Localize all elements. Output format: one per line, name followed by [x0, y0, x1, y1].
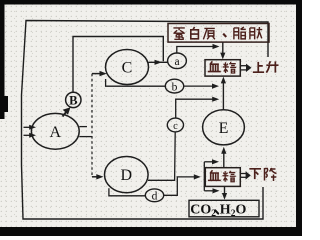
branch bottom arrow [204, 190, 215, 192]
circle B [66, 92, 81, 107]
text rise(sheng) [266, 61, 278, 72]
wire D bottom to d [109, 188, 145, 196]
dashed nerve arrow into C [92, 73, 102, 75]
text up(shang) [253, 62, 264, 72]
dashed nerve stubs from A [79, 126, 87, 128]
wire arrow into A upper [24, 126, 31, 128]
svg-text:B: B [69, 93, 77, 107]
wire C bottom to b [106, 79, 166, 86]
svg-text:b: b [172, 81, 178, 93]
wire from D up through c with arrow [176, 99, 216, 118]
circle b [165, 79, 183, 93]
scan border top [0, 0, 302, 5]
lower blood sugar box [205, 168, 240, 187]
svg-text:a: a [174, 56, 179, 68]
feedback loop wire (top-left-bottom big path) [22, 21, 269, 220]
scan border right [296, 0, 302, 236]
arrow E up to upper blood sugar [222, 81, 224, 110]
dashed nerve arrow into D [92, 176, 99, 178]
arrow A to B [63, 111, 68, 117]
arrow lower blood sugar down to CO2 box [224, 187, 226, 196]
branch top arrow [204, 161, 215, 163]
wire arrow into A lower [24, 134, 31, 136]
text fall(jiang) [265, 168, 277, 181]
text sugar(tang) upper [223, 62, 236, 73]
arrow lower blood sugar up to E [223, 152, 225, 168]
upper blood sugar box [205, 60, 240, 76]
wire a up to conversion line with arrow [177, 47, 216, 54]
ideographic comma in CO2 box (drawn) [215, 210, 218, 213]
svg-text:C: C [122, 60, 133, 77]
svg-text:A: A [50, 124, 62, 141]
ellipse D [105, 157, 149, 193]
text zhi(fat) [234, 27, 246, 39]
ideographic comma [223, 34, 226, 37]
text down(xia) [249, 169, 261, 179]
text sugar(tang) lower [222, 171, 235, 182]
text zhi(quality) [203, 28, 214, 39]
text fang(fat2) [250, 27, 262, 39]
circle a [168, 53, 187, 69]
svg-text:D: D [121, 167, 133, 184]
text blood(xue) upper [208, 61, 221, 71]
text white(bai) [191, 27, 199, 39]
svg-text:E: E [219, 120, 229, 137]
scan border bottom [0, 227, 302, 236]
svg-text:d: d [152, 190, 158, 202]
svg-text:c: c [173, 121, 178, 132]
wire b to riser arrow [184, 85, 215, 87]
wire d to lower blood sugar with arrow [164, 177, 197, 195]
circle c [167, 118, 183, 132]
wire c down to D [148, 132, 175, 180]
double arrow lower (fall) [241, 173, 247, 175]
circle d [145, 189, 163, 202]
text protein(dan) [173, 28, 184, 39]
dashed nerve vertical [91, 74, 93, 177]
arrow C to a [149, 61, 168, 63]
branch vertical at lower blood sugar [203, 162, 205, 191]
protein/fat box [168, 24, 269, 43]
ellipse E [203, 110, 245, 145]
Chinese glyph strokes, dark red [173, 27, 278, 182]
double arrow upper (rise) [241, 65, 247, 67]
scan border left [0, 0, 5, 119]
wire B up and over to C-a junction [73, 37, 163, 93]
conversion arrow box to blood sugar (down) [222, 42, 224, 55]
ellipse A [31, 113, 79, 149]
ellipse C [106, 50, 149, 85]
text blood(xue) lower [208, 170, 221, 180]
CO2 H2O box [189, 200, 259, 217]
